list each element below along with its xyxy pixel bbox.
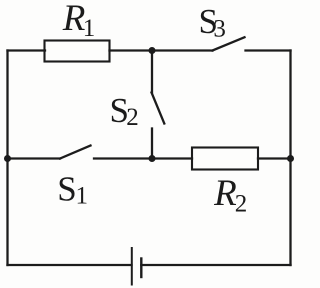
svg-text:1: 1 xyxy=(83,15,96,42)
wire: top segment from R1 to S3 pivot xyxy=(110,49,213,51)
wire: middle left segment to S1 pivot xyxy=(8,157,61,159)
svg-text:S: S xyxy=(57,170,76,209)
wire: S2 upper vertical segment xyxy=(151,51,153,93)
svg-text:2: 2 xyxy=(235,191,248,218)
wire: middle segment S1 contact to node B xyxy=(94,157,152,159)
wire: middle right segment R2 to right rail xyxy=(258,157,291,159)
svg-text:R: R xyxy=(213,173,237,214)
switch S3 lever xyxy=(213,37,245,50)
wire: middle segment node B to R2 xyxy=(152,157,192,159)
node C (right rail junction) xyxy=(287,155,294,162)
wire: top left segment xyxy=(8,49,46,51)
wire: bottom right segment xyxy=(141,264,290,266)
wire: left rail xyxy=(6,51,8,266)
resistor R1 xyxy=(45,41,110,62)
node A (top junction) xyxy=(149,47,156,54)
switch S2 lever xyxy=(152,93,165,124)
wire: bottom left segment xyxy=(8,264,132,266)
svg-text:2: 2 xyxy=(126,104,139,131)
label R2 xyxy=(213,173,247,218)
battery long plate xyxy=(131,248,133,285)
node B (middle junction) xyxy=(149,155,156,162)
node D (left rail junction) xyxy=(4,155,11,162)
label S2 xyxy=(110,91,139,131)
wire: right rail xyxy=(289,51,291,266)
battery short plate xyxy=(140,259,142,278)
label S1 xyxy=(57,170,88,210)
svg-text:1: 1 xyxy=(76,183,89,210)
label S3 xyxy=(199,2,226,43)
switch S1 lever xyxy=(60,146,91,159)
svg-text:3: 3 xyxy=(213,16,226,43)
wire: top right contact segment xyxy=(246,49,291,51)
label R1 xyxy=(62,0,95,42)
resistor R2 xyxy=(192,148,258,170)
wire: S2 lower vertical segment xyxy=(151,129,153,159)
